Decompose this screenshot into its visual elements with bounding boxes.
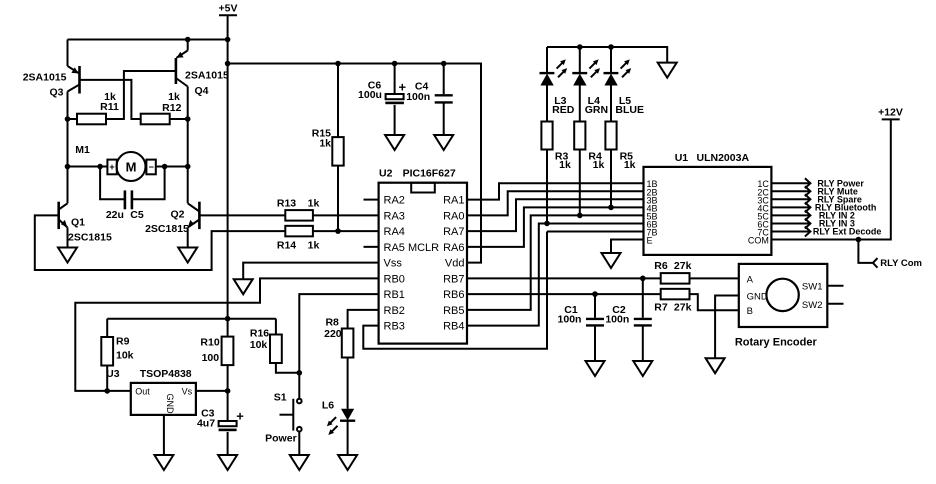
ground S1	[290, 455, 309, 470]
svg-text:Rotary Encoder: Rotary Encoder	[735, 336, 818, 348]
svg-text:ULN2003A: ULN2003A	[697, 152, 750, 164]
wire +5V vertical main	[227, 15, 229, 318]
node junction rail2 C6	[392, 61, 398, 67]
ground Vss	[234, 279, 253, 294]
svg-text:−: −	[149, 162, 154, 172]
node junction +5V rail2	[225, 61, 231, 67]
resistor R15	[312, 64, 344, 232]
svg-text:R11: R11	[100, 101, 119, 113]
svg-text:100u: 100u	[358, 89, 382, 101]
wire motor right	[156, 166, 188, 168]
ground E	[602, 253, 621, 268]
svg-text:1k: 1k	[559, 159, 571, 171]
wire R12 right	[170, 118, 188, 120]
svg-text:RA0: RA0	[443, 210, 464, 222]
svg-text:1k: 1k	[624, 159, 636, 171]
wire output 5C	[771, 210, 810, 220]
node junction L5 4B	[608, 205, 614, 211]
wire COM to +12V	[771, 119, 890, 239]
wire R4 to 5B	[579, 150, 581, 216]
svg-text:RA3: RA3	[384, 210, 405, 222]
wire RB0 to TSOP Out	[75, 278, 378, 391]
svg-text:GRN: GRN	[585, 104, 608, 116]
svg-text:R9: R9	[116, 336, 130, 348]
transistor Q4 2SA1015	[176, 40, 229, 98]
node junction rail2 C4	[441, 61, 447, 67]
capacitor C5 22u	[100, 167, 165, 221]
resistor R4 1k	[574, 86, 604, 171]
resistor R5 1k	[605, 86, 635, 171]
svg-text:22u: 22u	[106, 209, 124, 221]
svg-text:PIC16F627: PIC16F627	[403, 167, 456, 179]
wire RLY Com branch	[858, 240, 873, 263]
wire Q3 collector vertical	[67, 92, 69, 204]
wire motor left	[68, 166, 108, 168]
capacitor C4 100n	[406, 64, 452, 136]
svg-text:100n: 100n	[605, 313, 629, 325]
svg-text:R7: R7	[654, 301, 668, 313]
wire R11 to Q4 base	[106, 71, 176, 119]
wire RA7 to 3B	[467, 199, 644, 231]
wire 7B left	[547, 231, 644, 233]
node junction R12 right	[185, 116, 191, 122]
resistor R11	[77, 91, 119, 124]
svg-text:1k: 1k	[308, 239, 320, 251]
wire +5V rail to Q3/Q4 emitters	[68, 39, 228, 41]
svg-text:100: 100	[202, 352, 220, 364]
ground C3	[218, 455, 237, 470]
ground L6	[338, 455, 357, 470]
svg-text:B: B	[747, 306, 753, 317]
node junction R15 RA4	[335, 228, 341, 234]
node junction L4 5B	[577, 213, 583, 219]
wire RB5 to 5B	[467, 215, 644, 309]
node relay output labels	[813, 178, 882, 236]
svg-text:4u7: 4u7	[197, 417, 215, 429]
node junction R10 rail	[225, 316, 231, 322]
svg-text:2SC1815: 2SC1815	[68, 232, 112, 244]
wire Vss to ground	[243, 263, 378, 280]
svg-text:RA4: RA4	[384, 226, 405, 238]
svg-text:Q1: Q1	[71, 216, 85, 228]
svg-text:M: M	[126, 160, 137, 175]
ground encoder	[706, 358, 725, 373]
svg-text:Power: Power	[265, 433, 297, 445]
svg-text:27k: 27k	[674, 260, 692, 272]
wire Q1 emitter to ground	[67, 228, 69, 248]
svg-text:Q2: Q2	[170, 208, 184, 220]
wire RB2 to R8	[348, 310, 379, 329]
svg-text:COM: COM	[748, 236, 769, 246]
svg-text:100n: 100n	[406, 91, 430, 103]
node junction Q4 emitter rail	[185, 37, 191, 43]
svg-text:RLY Com: RLY Com	[880, 258, 922, 269]
wire RA6 to 4B	[467, 207, 644, 247]
capacitor C3 4u7	[197, 391, 244, 455]
svg-text:10k: 10k	[116, 349, 134, 361]
svg-text:A: A	[747, 275, 754, 286]
LED L6	[322, 358, 355, 436]
svg-text:RB2: RB2	[384, 305, 405, 317]
op-amp U1 ULN2003A body	[644, 152, 772, 255]
switch S1 Power	[265, 391, 301, 444]
svg-text:U3: U3	[106, 368, 120, 380]
svg-text:R16: R16	[250, 327, 269, 339]
node junction R11 left	[65, 116, 71, 122]
node junction rail L4	[577, 44, 583, 50]
switch rotary encoder body	[735, 264, 827, 348]
svg-text:U2: U2	[379, 167, 393, 179]
node junction motor left rail	[65, 164, 71, 170]
node junction R16 S1	[297, 370, 303, 376]
resistor R14	[277, 226, 320, 252]
pin RA5 stub	[364, 246, 379, 248]
node junction C1 RB6	[592, 291, 598, 297]
resistor R7 27k	[654, 289, 691, 314]
node junction COM branch	[856, 237, 862, 243]
svg-text:E: E	[647, 236, 653, 246]
resistor R12	[141, 91, 182, 124]
op-amp U3 TSOP4838 body	[106, 368, 196, 415]
LED L3 RED	[540, 47, 575, 116]
svg-text:RA7: RA7	[443, 226, 464, 238]
wire R7 to encoder B	[690, 294, 739, 310]
svg-text:Q3: Q3	[50, 86, 64, 98]
svg-text:1k: 1k	[308, 198, 320, 210]
pin SW2 stub	[827, 303, 843, 305]
node junction R9 bottom	[104, 388, 110, 394]
wire output 7C	[771, 227, 810, 237]
svg-text:RA2: RA2	[384, 195, 405, 207]
wire E to ground	[611, 240, 644, 253]
LED L4 GRN	[572, 47, 608, 116]
motor M1	[75, 144, 156, 181]
ground LED rail	[658, 63, 677, 78]
wire TSOP Vs to R10	[196, 390, 228, 392]
wire RB3 to 7B	[363, 232, 547, 349]
wire output 1C	[771, 178, 810, 188]
resistor R16 10k	[250, 319, 300, 373]
svg-text:100n: 100n	[558, 313, 582, 325]
svg-text:2SC1815: 2SC1815	[145, 223, 189, 235]
resistor R6 27k	[654, 260, 691, 283]
svg-text:BLUE: BLUE	[615, 104, 644, 116]
svg-text:RA6: RA6	[443, 242, 464, 254]
ground C1	[586, 361, 605, 376]
wire L6 to ground	[347, 421, 349, 455]
pin labels U1 left	[647, 179, 658, 245]
power symbol +12V	[878, 107, 903, 120]
svg-text:2SA1015: 2SA1015	[23, 71, 67, 83]
wire TSOP GND to ground	[163, 415, 165, 455]
node junction Vs R10 C3	[225, 388, 231, 394]
wire RB1 to S1	[299, 294, 378, 398]
svg-text:10k: 10k	[250, 339, 268, 351]
node junction C2 RB7	[640, 276, 646, 282]
resistor R3 1k	[541, 86, 571, 171]
wire R5 to 4B	[610, 150, 612, 208]
ground Q2	[178, 248, 197, 263]
svg-text:R12: R12	[162, 102, 181, 114]
svg-text:U1: U1	[675, 152, 689, 164]
wire Q2 emitter to ground	[187, 228, 189, 248]
svg-text:S1: S1	[274, 391, 287, 403]
svg-text:+12V: +12V	[878, 107, 903, 119]
ground Q1	[58, 248, 77, 263]
pin RA2 stub	[364, 199, 379, 201]
wire 5V sub rail R9 R10 R16	[107, 318, 276, 320]
wire output 4C	[771, 202, 810, 212]
wire encoder GND to ground	[715, 296, 739, 359]
svg-text:SW1: SW1	[802, 282, 823, 293]
node junction C5 left tap	[97, 164, 103, 170]
transistor Q1 2SC1815	[59, 202, 112, 244]
wire RB7 to R6	[467, 277, 661, 279]
wire RA1 to 1B	[467, 183, 644, 199]
svg-text:R13: R13	[277, 198, 296, 210]
wire Q3 base to R12	[80, 80, 141, 119]
svg-text:R6: R6	[654, 260, 668, 272]
svg-text:RB3: RB3	[384, 321, 405, 333]
svg-text:Out: Out	[135, 386, 150, 396]
LED L5 BLUE	[604, 47, 644, 116]
pin labels U2 right	[443, 195, 464, 333]
svg-text:SW2: SW2	[802, 300, 823, 311]
svg-text:R8: R8	[325, 317, 339, 329]
svg-text:RB6: RB6	[443, 289, 464, 301]
wire RB4 to 6B	[467, 223, 644, 325]
node RLY Com connector	[873, 258, 922, 269]
node junction +5V rail1	[225, 37, 231, 43]
pin SW1 stub	[827, 285, 843, 287]
svg-text:Vss: Vss	[384, 258, 403, 270]
wire RB6 to R7	[467, 293, 661, 295]
wire S1 to ground	[298, 432, 300, 456]
resistor R13	[277, 198, 320, 221]
power symbol +5V	[219, 3, 238, 16]
ground C2	[633, 361, 652, 376]
svg-text:220: 220	[324, 328, 342, 340]
wire Q4 collector vertical	[187, 87, 189, 204]
resistor R10 100	[200, 319, 233, 391]
svg-text:1k: 1k	[593, 159, 605, 171]
svg-text:R10: R10	[200, 336, 219, 348]
svg-text:M1: M1	[75, 144, 90, 156]
svg-text:1k: 1k	[319, 137, 331, 149]
node junction motor right rail	[185, 164, 191, 170]
svg-text:L6: L6	[322, 400, 334, 412]
capacitor C1 100n	[558, 294, 604, 361]
svg-text:RB7: RB7	[443, 273, 464, 285]
transistor Q3 2SA1015	[23, 40, 80, 99]
ground C6	[385, 135, 404, 150]
svg-text:RA1: RA1	[443, 195, 464, 207]
wire output 6C	[771, 218, 810, 228]
svg-text:+: +	[236, 409, 244, 424]
resistor R8 220	[324, 317, 353, 358]
resistor R9 10k	[101, 319, 133, 391]
ground C4	[434, 135, 453, 150]
wire RA0 to 2B	[467, 191, 644, 215]
wire Q1 base loop to R14	[35, 215, 285, 270]
svg-text:GND: GND	[747, 292, 768, 303]
svg-text:C5: C5	[130, 209, 144, 221]
svg-text:RB5: RB5	[443, 305, 464, 317]
wire R6 to encoder A	[690, 277, 739, 279]
node junction rail L5	[608, 44, 614, 50]
svg-text:RA5 MCLR: RA5 MCLR	[384, 242, 440, 254]
wire output 3C	[771, 194, 810, 204]
svg-text:Vs: Vs	[182, 386, 193, 396]
wire output 2C	[771, 186, 810, 196]
svg-text:RB4: RB4	[443, 321, 464, 333]
wire R14 to RA4	[313, 230, 379, 232]
svg-text:RED: RED	[552, 104, 575, 116]
wire R13 to RA3	[313, 214, 379, 216]
wire Q2 base to R13	[199, 214, 285, 216]
svg-text:+5V: +5V	[219, 3, 238, 15]
svg-text:27k: 27k	[674, 301, 692, 313]
svg-text:R14: R14	[277, 239, 296, 251]
pin labels U1 right	[748, 179, 769, 245]
svg-text:RB1: RB1	[384, 289, 405, 301]
svg-text:RB0: RB0	[384, 273, 405, 285]
svg-text:+: +	[109, 162, 114, 172]
node junction C5 right tap	[162, 164, 168, 170]
node junction rail2 R15	[335, 61, 341, 67]
op-amp U2 PIC16F627 body	[379, 167, 467, 343]
svg-text:2SA1015: 2SA1015	[185, 70, 229, 82]
svg-text:Vdd: Vdd	[445, 258, 465, 270]
ground TSOP	[154, 455, 173, 470]
capacitor C6 100u	[358, 64, 406, 136]
svg-text:TSOP4838: TSOP4838	[140, 368, 192, 380]
wire +5V rail2 to Vdd	[228, 64, 481, 263]
wire LED ground rail	[547, 47, 667, 63]
node junction L3 6B	[544, 221, 550, 227]
svg-text:Q4: Q4	[195, 85, 209, 97]
pin labels U2 left	[384, 195, 440, 333]
wire R3 to 6B	[546, 150, 548, 224]
svg-text:GND: GND	[165, 394, 175, 415]
transistor Q2 2SC1815	[145, 202, 199, 235]
svg-text:RLY Ext Decode: RLY Ext Decode	[813, 227, 882, 237]
capacitor C2 100n	[605, 278, 651, 361]
wire R11 left	[68, 118, 78, 120]
